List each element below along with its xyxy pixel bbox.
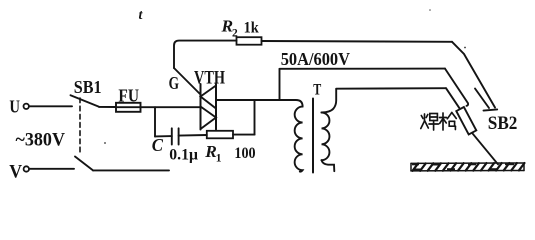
fuse FU xyxy=(116,103,141,112)
gate wire G xyxy=(174,68,201,95)
triac VTH right bar xyxy=(215,84,217,130)
wire to capacitor xyxy=(155,135,172,137)
svg-text:C: C xyxy=(152,135,164,155)
capacitor C plates xyxy=(171,128,173,144)
wire V to SB1 pole 2 xyxy=(30,168,74,170)
wire main from VTH to transformer xyxy=(216,100,303,107)
SB1 mechanical link dashed xyxy=(79,98,81,155)
resistor R1 box xyxy=(207,131,233,139)
workpiece hatched bar xyxy=(411,163,525,171)
svg-text:T: T xyxy=(313,82,321,99)
switch SB1 pole 1 blade xyxy=(71,95,100,107)
svg-text:100: 100 xyxy=(234,145,255,162)
speck dots xyxy=(104,142,106,144)
wire control cable B horizontal xyxy=(280,68,446,70)
switch SB2 blade xyxy=(475,89,489,109)
svg-text:~380V: ~380V xyxy=(16,130,66,150)
wire U to SB1 xyxy=(30,105,72,107)
transformer core xyxy=(312,99,314,173)
wire FU to VTH anode xyxy=(141,106,201,108)
wire cable C diagonal into gun xyxy=(446,88,460,109)
svg-text:1: 1 xyxy=(216,152,222,164)
switch SB1 pole 2 blade xyxy=(75,157,93,171)
svg-text:50A/600V: 50A/600V xyxy=(281,49,351,69)
wire control cable B diagonal xyxy=(445,69,468,106)
wire SB1 pole2 right xyxy=(93,169,169,171)
wire electrode to workpiece xyxy=(473,134,498,165)
wire control cable A diagonal xyxy=(452,42,495,108)
svg-text:FU: FU xyxy=(118,85,139,105)
triac bottom triangle xyxy=(201,107,217,130)
svg-text:t: t xyxy=(139,8,144,23)
wire cable C horizontal xyxy=(336,87,446,90)
transformer T primary winding xyxy=(295,107,303,172)
triac VTH left bar xyxy=(200,84,202,130)
svg-text:1k: 1k xyxy=(244,19,259,36)
wire SB1 to FU xyxy=(99,106,116,108)
welding gun body xyxy=(456,107,476,135)
svg-text:U: U xyxy=(9,97,20,117)
wire capacitor to R1 xyxy=(179,134,207,137)
svg-text:SB1: SB1 xyxy=(74,77,102,97)
svg-text:SB2: SB2 xyxy=(488,114,518,134)
wire riser to control cable B xyxy=(279,69,281,100)
svg-text:0.1μ: 0.1μ xyxy=(169,146,198,163)
wire R2 to bend xyxy=(262,40,453,43)
resistor R2 box xyxy=(237,37,262,45)
switch SB2 bottom contact stroke xyxy=(484,109,498,110)
svg-text:VTH: VTH xyxy=(194,69,225,89)
node U terminal xyxy=(24,104,29,109)
wire secondary bottom hook xyxy=(322,160,335,171)
wire R1 to right riser xyxy=(233,134,255,136)
label hanqiang (welding gun) glyph 1 xyxy=(421,113,457,131)
triac top triangle xyxy=(201,86,217,109)
wire secondary top to cable C xyxy=(322,89,337,113)
wire snubber right riser xyxy=(254,100,256,135)
transformer T secondary winding xyxy=(322,113,330,161)
svg-text:2: 2 xyxy=(232,27,238,39)
svg-text:G: G xyxy=(169,73,180,93)
node V terminal xyxy=(24,166,29,171)
wire snubber left drop xyxy=(154,107,156,136)
svg-text:V: V xyxy=(9,161,22,182)
label hanqiang glyph 2 xyxy=(440,113,457,131)
wire gate riser and top corner xyxy=(174,41,237,68)
